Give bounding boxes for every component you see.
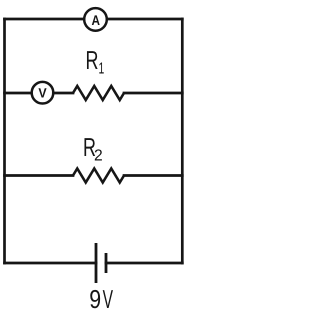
wire bottom-right segment	[106, 262, 182, 265]
wire top-right segment	[107, 18, 182, 21]
svg-text:V: V	[103, 284, 114, 312]
wire top-left segment	[5, 18, 85, 21]
svg-text:A: A	[92, 12, 101, 28]
wire right vertical	[181, 19, 184, 263]
svg-text:1: 1	[99, 61, 105, 78]
svg-text:R: R	[86, 45, 99, 75]
wire middle-2 right segment	[124, 174, 182, 177]
wire left vertical	[3, 19, 6, 263]
ammeter A	[84, 8, 107, 31]
svg-text:2: 2	[94, 147, 103, 164]
label R2	[83, 132, 103, 164]
label R1	[86, 45, 105, 78]
wire middle-2 left segment	[5, 174, 74, 177]
svg-text:V: V	[38, 85, 46, 100]
resistor R2	[73, 169, 124, 183]
label 9V	[89, 284, 113, 312]
svg-text:9: 9	[89, 284, 101, 312]
wire middle-1 left segment	[5, 92, 32, 95]
wire between voltmeter and R1	[53, 92, 73, 95]
resistor R1	[73, 86, 124, 100]
voltmeter V	[32, 82, 54, 104]
wire middle-1 right segment	[124, 92, 182, 95]
battery negative plate (short)	[105, 253, 108, 273]
battery positive plate (long)	[95, 243, 98, 283]
wire bottom-left segment	[5, 262, 97, 265]
